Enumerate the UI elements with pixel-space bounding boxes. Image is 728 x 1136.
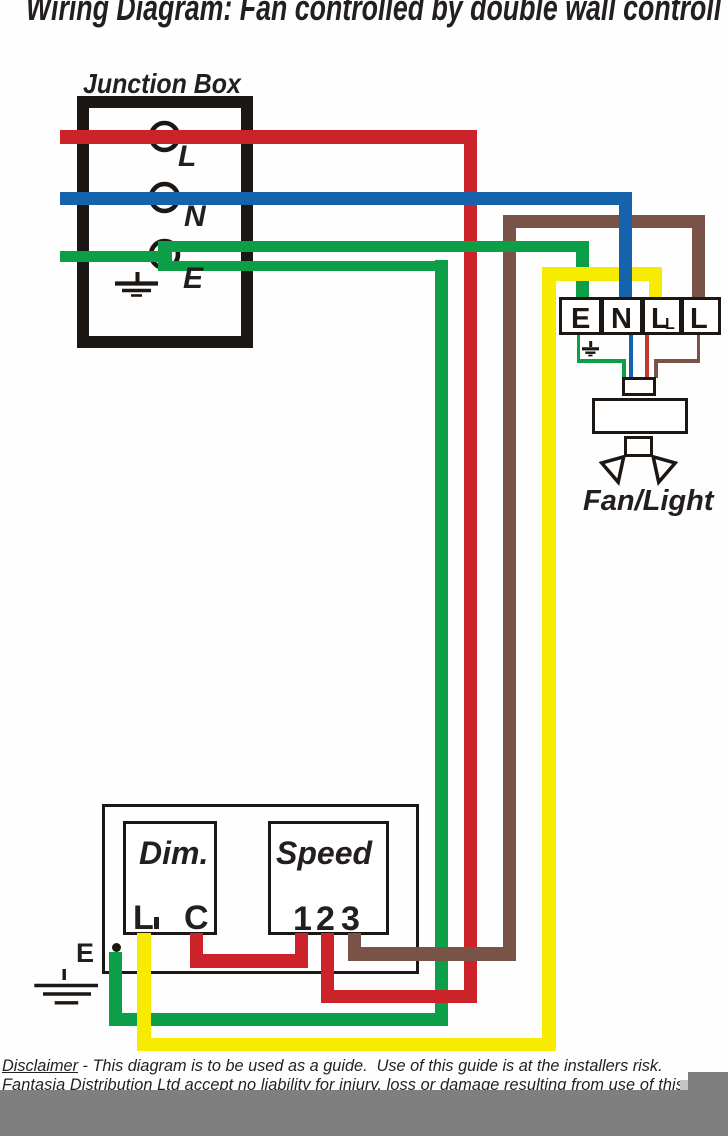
light fixture box (624, 436, 653, 457)
fan brown thin wire vertical (697, 335, 701, 362)
dimmer label (139, 837, 208, 869)
wire yellow main vertical (542, 267, 556, 1051)
fan brown thin wire horizontal (654, 359, 700, 363)
wall control outer box (102, 804, 419, 974)
terminal block label L3 (651, 305, 669, 334)
wire green bottom horizontal (109, 1013, 448, 1026)
wire red speed2 vertical (321, 933, 334, 1003)
speed terminal 3 (341, 902, 360, 936)
disclaimer line 2 (2, 1076, 684, 1096)
fan light label (583, 487, 713, 516)
title (26, 0, 721, 26)
junction dot (112, 943, 121, 952)
dimmer terminal C (184, 901, 209, 935)
fan earth thin wire vertical (577, 335, 581, 362)
wire red main vertical (464, 130, 477, 1003)
wire yellow vertical to L terminal (649, 267, 662, 301)
wire blue top horizontal (60, 192, 632, 205)
terminal block divider 1 (599, 297, 604, 335)
terminal block label N (611, 305, 632, 334)
junction box earth symbol (112, 270, 162, 300)
censor bar (0, 1090, 728, 1136)
speed box (268, 821, 389, 935)
terminal block divider 2 (640, 297, 645, 335)
wire red top horizontal (60, 130, 477, 144)
fan red thin wire (645, 335, 649, 378)
fan body (592, 398, 688, 434)
censor bar right block (688, 1072, 728, 1092)
label E (183, 264, 203, 294)
wire green left vertical (109, 952, 122, 1026)
terminal ring L (146, 118, 183, 155)
wire green lower horizontal (158, 261, 448, 272)
junction box (77, 96, 253, 348)
terminal block (559, 297, 721, 335)
light shades (595, 450, 685, 488)
terminal ring E (146, 236, 183, 273)
speed terminal 2 (316, 902, 335, 936)
wire green upper horizontal (158, 241, 589, 252)
dimmer box (123, 821, 217, 935)
wire green main vertical (435, 260, 448, 1026)
terminal block label E (571, 305, 590, 334)
fan blue thin wire (629, 335, 633, 378)
fan brown thin wire vertical 2 (654, 359, 658, 378)
terminal block label L4 (690, 305, 708, 334)
wall control earth symbol (32, 966, 100, 1008)
speed label (276, 837, 372, 869)
wire brown right vertical (692, 215, 705, 301)
fan terminal earth symbol (580, 340, 602, 358)
wire brown top horizontal (503, 215, 705, 228)
wire red dim C vertical (190, 933, 203, 968)
terminal block divider 3 (679, 297, 684, 335)
wire yellow bottom horizontal (137, 1038, 556, 1051)
label L (178, 142, 196, 172)
fan earth thin wire horizontal (577, 359, 626, 363)
dimmer terminal L subscript (154, 917, 159, 929)
wire yellow top horizontal (542, 267, 662, 281)
wire red bottom horizontal (321, 990, 477, 1003)
earth label E (76, 940, 94, 967)
wire brown speed3 vertical (348, 933, 361, 961)
wire red speed1 vertical (295, 933, 308, 968)
censor bar light square (680, 1080, 688, 1090)
junction box label (83, 70, 241, 98)
fan connector box (622, 377, 656, 396)
wire yellow left vertical (137, 933, 151, 1051)
speed terminal 1 (293, 902, 312, 936)
wire green vertical to E terminal (576, 241, 589, 301)
wire green left horizontal (60, 251, 172, 262)
wire red dim-speed horizontal (190, 954, 308, 968)
wire brown bottom horizontal (348, 947, 516, 961)
wire brown left vertical (503, 215, 516, 961)
label N (184, 202, 206, 232)
disclaimer line 1 (2, 1057, 663, 1077)
terminal block label L3 subscript (665, 317, 675, 333)
terminal ring N (146, 179, 183, 216)
dimmer terminal L (133, 901, 154, 935)
fan earth thin wire vertical 2 (622, 359, 626, 378)
wire blue vertical to N terminal (619, 192, 632, 301)
